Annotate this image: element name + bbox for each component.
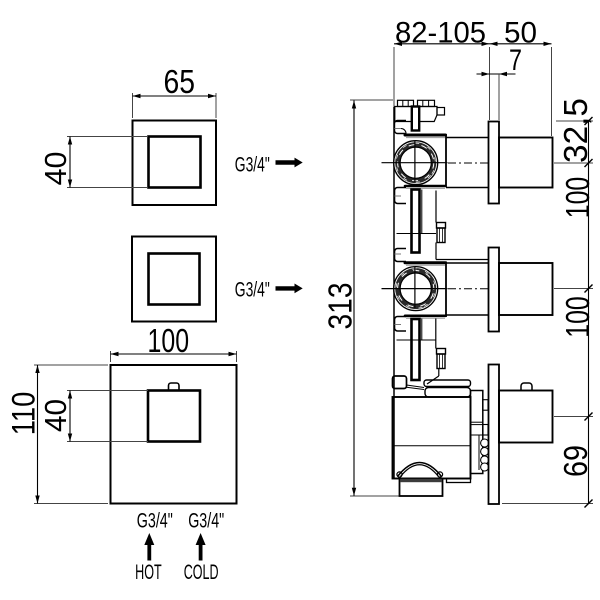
mixer block joint line	[393, 445, 471, 447]
dim 65 arrows	[133, 94, 217, 98]
dim 40 arrows (plate C)	[68, 391, 72, 442]
dim 100 extension lines	[111, 351, 237, 362]
plate C handle tab	[169, 383, 180, 391]
dim 100 arrows	[111, 352, 237, 356]
valve 1 upper flange	[395, 121, 407, 134]
plate A inner square (handle)	[149, 137, 201, 188]
svg-text:HOT: HOT	[135, 560, 162, 584]
mixer left bracket	[393, 376, 407, 389]
valve 1 inner circle	[400, 147, 431, 178]
valve 2 lower flange	[395, 317, 407, 332]
valve 1 upper flange fillet	[401, 129, 406, 134]
right chain oblique ticks	[585, 117, 593, 508]
sleeve 2 lines	[446, 262, 489, 264]
plate C outer rect (100x110)	[111, 365, 237, 504]
svg-text:G3/4": G3/4"	[137, 509, 173, 533]
valve 1 ring white streaks	[398, 145, 434, 181]
right wall vertical to bracket line	[435, 243, 437, 260]
cold inlet arrow	[196, 533, 206, 561]
right dim chain line	[588, 121, 590, 504]
fitting 2 thread lines	[439, 354, 441, 369]
valve 2 block bottom edge	[405, 314, 446, 317]
dim 100 line	[111, 353, 237, 355]
centerline valve1 dashed	[448, 162, 488, 164]
dim 313 line	[353, 101, 355, 496]
body joint line between valves 1-2	[397, 233, 437, 235]
service stop fitting 2 body	[437, 354, 445, 369]
valve 1 block top edge	[405, 134, 446, 137]
dim 313 extension line bottom	[350, 495, 399, 497]
escutcheon 3	[489, 365, 500, 505]
thin rib line right of slot 1	[421, 190, 423, 234]
mixer top bar 1	[424, 380, 471, 387]
dim 313 arrows	[352, 101, 356, 496]
service stop fitting 2 cap	[437, 349, 446, 355]
dim 7 arrows	[482, 72, 508, 76]
cartridge tab 1	[483, 400, 488, 411]
escutcheon 1	[489, 122, 500, 204]
bottom arch inner	[401, 465, 439, 477]
valve 1 serrated cap right lobe	[418, 100, 435, 106]
cartridge housing	[471, 391, 483, 474]
valve 1 upper flange shadow line	[395, 128, 402, 130]
cartridge housing joints	[471, 421, 483, 423]
valve 1 block bottom edge	[405, 185, 446, 188]
valve 2 block bottom shadow	[406, 317, 445, 319]
outlet pipe	[400, 479, 443, 497]
connecting pipe slot 2 (valve2 down)	[412, 319, 420, 380]
G3/4 arrow upper	[276, 158, 303, 168]
svg-text:69: 69	[557, 445, 594, 477]
G3/4 arrow lower	[276, 284, 303, 294]
svg-text:7: 7	[509, 44, 522, 77]
svg-text:40: 40	[38, 152, 73, 186]
body joint line between valve2 and mixer	[397, 339, 436, 341]
svg-text:32,5: 32,5	[557, 98, 594, 163]
centerline valve2 dashed	[448, 288, 488, 290]
valve 2 block top shadow	[406, 264, 445, 266]
dim 110 extension lines	[34, 365, 108, 504]
valve 1 crosshair	[382, 162, 448, 164]
arch end dots	[397, 472, 402, 477]
svg-text:40: 40	[38, 399, 73, 432]
plate B outer square	[132, 237, 216, 322]
dim 7 extension line	[498, 74, 500, 120]
svg-text:100: 100	[559, 296, 596, 338]
dim 40 (plate A) extension lines	[67, 137, 148, 188]
knob 3	[499, 391, 553, 443]
funnel diagonal right	[427, 376, 439, 384]
dim 82-105 / 50 extension lines	[394, 47, 552, 136]
valve 1 block top shadow	[406, 137, 445, 139]
dim 40 arrows (plate A)	[68, 137, 72, 188]
valve 1 cap body	[395, 107, 437, 122]
dim 40 line (plate A)	[69, 137, 71, 188]
plate C inner square	[148, 391, 200, 442]
svg-text:100: 100	[148, 322, 190, 359]
fitting 1 thread lines	[439, 228, 441, 243]
funnel diagonal left (double)	[407, 385, 425, 388]
valve 2 crosshair	[382, 288, 448, 290]
valve 1 outer circle	[394, 141, 438, 185]
dim 82-105 arrows	[394, 42, 552, 46]
valve 1 cap right tab	[437, 108, 445, 116]
mixer foot step	[447, 479, 471, 483]
mixer top bar 2	[425, 388, 471, 398]
svg-text:82-105: 82-105	[395, 17, 486, 50]
svg-text:110: 110	[6, 392, 42, 436]
dim 40 line (plate C)	[69, 391, 71, 442]
svg-text:G3/4": G3/4"	[188, 509, 224, 533]
fitting 2 stem	[438, 369, 440, 377]
dim 65 extension lines	[133, 93, 217, 118]
hot inlet arrow	[144, 533, 154, 561]
valve 2 outer circle	[394, 267, 438, 311]
svg-text:G3/4": G3/4"	[235, 278, 270, 302]
valve 1 block bottom shadow	[406, 187, 445, 189]
valve 2 block top edge	[405, 261, 446, 264]
svg-text:G3/4": G3/4"	[235, 153, 270, 177]
valve 1 dark ring	[395, 142, 436, 183]
right wall vertical (below valve2)	[435, 319, 437, 349]
valve 1 spindle slot	[412, 107, 419, 131]
outlet dark band	[400, 479, 441, 482]
mixer block	[393, 397, 471, 479]
cartridge tab 2	[483, 425, 488, 436]
service stop fitting 1 cap	[437, 223, 446, 229]
cartridge bumps	[481, 439, 489, 447]
valve 2 ring white streaks	[394, 266, 438, 310]
svg-text:100: 100	[559, 177, 596, 219]
dim 110 line	[37, 365, 39, 504]
valve 2 upper flange	[395, 249, 407, 262]
knob 3 tab	[521, 383, 532, 391]
dim 7 line	[477, 73, 516, 75]
valve 1 serrated cap left lobe	[398, 100, 414, 106]
svg-text:COLD: COLD	[184, 560, 219, 584]
dim 313 extension line top	[350, 99, 393, 101]
valve 2 upper flange shadow line	[395, 253, 402, 255]
connecting pipe slot 1 (valve1 to valve2)	[412, 190, 420, 253]
valve 1 cap serration ticks	[402, 100, 404, 106]
svg-text:65: 65	[164, 63, 196, 100]
right chain extension lines	[502, 121, 593, 504]
valve 1 lower flange	[395, 188, 407, 204]
thin rib line right of slot 2	[421, 319, 423, 341]
valve 1 lower flange shadow line	[395, 195, 402, 197]
valve 2 lower flange shadow line	[395, 324, 402, 326]
valve 2 dark ring	[395, 268, 436, 309]
plate B inner square	[149, 254, 200, 305]
right wall vertical (below valve1)	[435, 191, 437, 223]
knob 2	[499, 263, 553, 315]
dim 110 arrows	[35, 365, 39, 504]
left face line	[393, 107, 395, 478]
escutcheon 2	[489, 248, 500, 332]
dim 65 line	[133, 95, 217, 97]
plate A outer square (65mm trim plate)	[133, 121, 217, 206]
bracket line to escutcheon 2	[436, 259, 489, 261]
valve 2 inner circle	[400, 273, 431, 304]
sleeve 1 lines	[446, 137, 489, 139]
valve 1 block right edge	[445, 134, 447, 187]
knob 1	[499, 138, 553, 188]
dim 82-105 line	[394, 43, 552, 45]
valve 2 block right edge	[445, 262, 447, 318]
dim 40 (plate C) extension lines	[67, 391, 148, 442]
service stop fitting 1 body	[437, 228, 445, 243]
bottom arch outer	[398, 463, 442, 477]
svg-text:313: 313	[321, 283, 358, 330]
